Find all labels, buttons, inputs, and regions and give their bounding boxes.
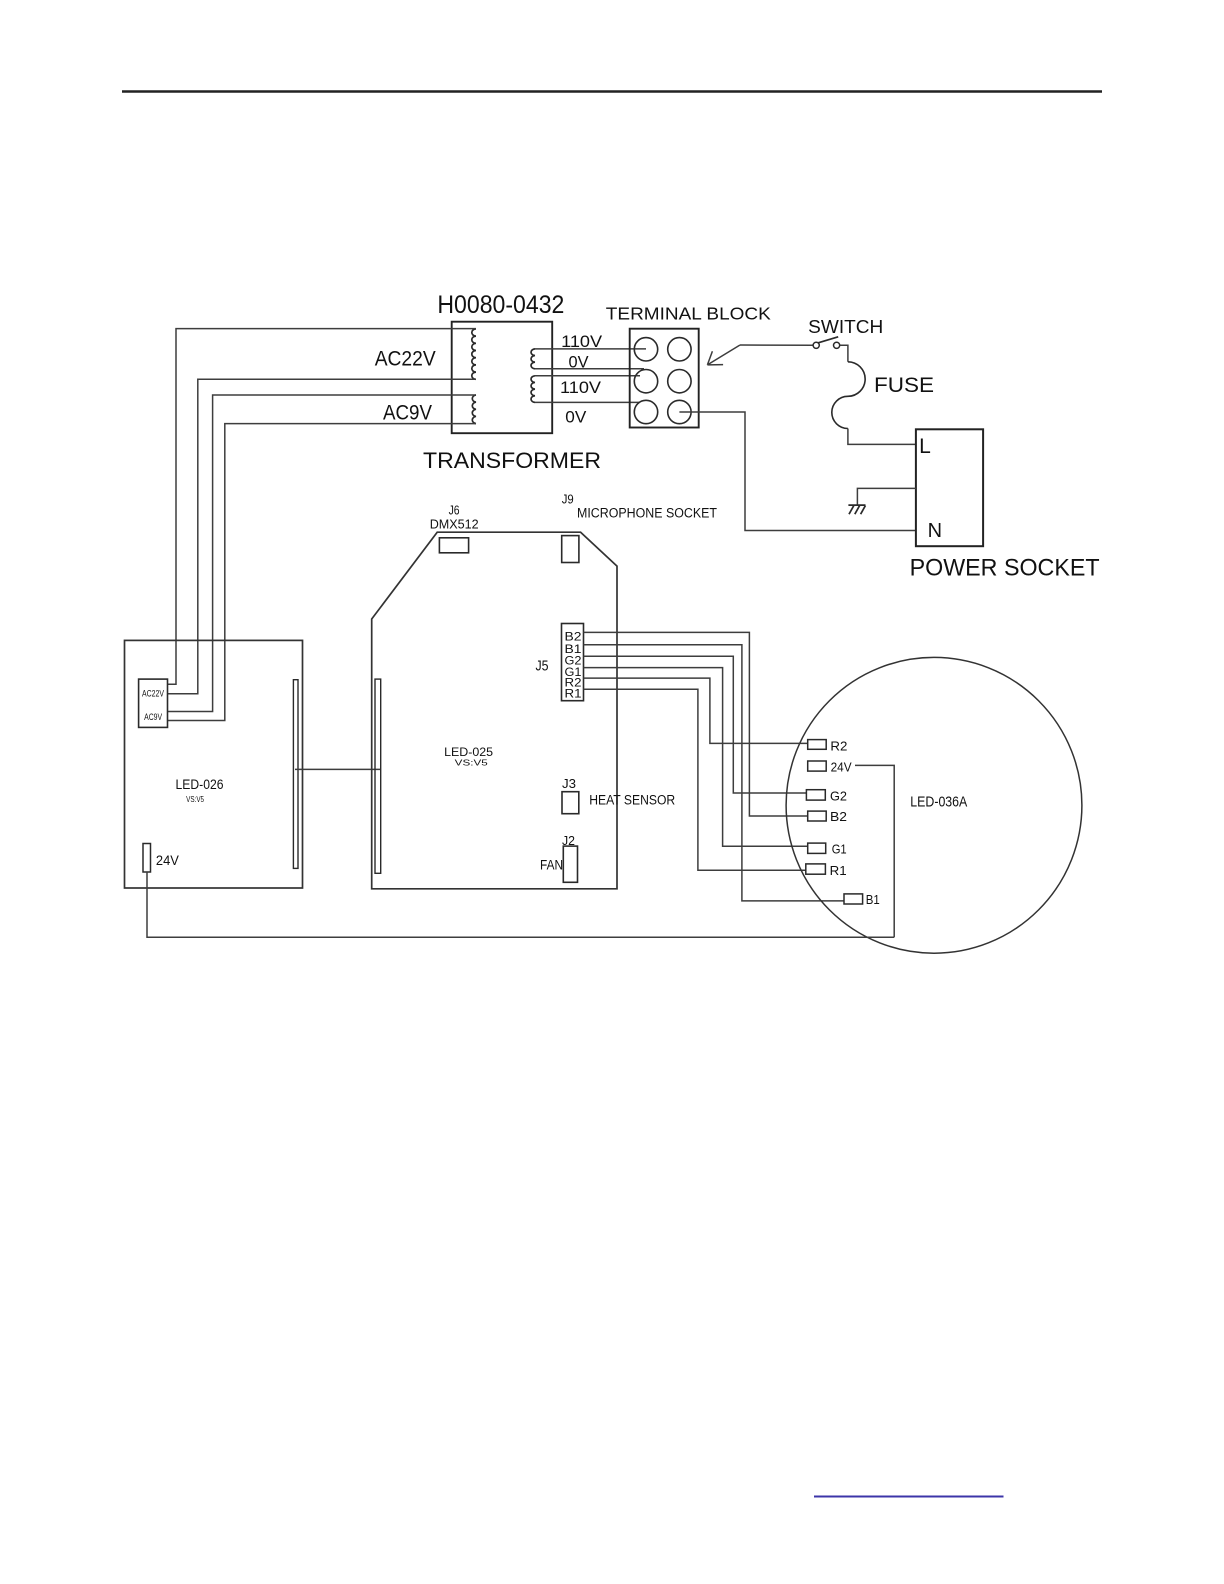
svg-text:LED-036A: LED-036A [910,794,967,811]
svg-text:R1: R1 [565,689,582,701]
svg-text:VS:V5: VS:V5 [455,759,489,768]
LED-025 board body [372,532,617,889]
switch S1 left contact [813,342,819,348]
connector J2 [563,846,577,882]
terminal TB1 pin 1 [634,338,657,361]
LED-026 board body [125,640,303,888]
transformer primary winding AC9V [472,395,476,424]
wire fuse to power socket L [848,429,916,445]
wire J5 R1 to LED-036A R1 [584,689,806,870]
connector J6 [439,538,468,553]
svg-text:0V: 0V [565,409,586,427]
ground [848,505,865,514]
svg-text:R1: R1 [830,863,847,878]
wire J5 R2 to LED-036A R2 [584,678,808,743]
LED-026 24V output connector [143,844,151,873]
transformer secondary winding 110V/0V upper [531,349,535,369]
svg-text:G2: G2 [565,655,582,667]
svg-text:J2: J2 [562,833,575,848]
svg-text:B1: B1 [866,892,880,907]
LED-036A terminal 24V [808,761,827,771]
svg-text:TERMINAL BLOCK: TERMINAL BLOCK [606,303,771,323]
connector J5 [562,624,584,701]
LED-036A terminal R2 [808,740,827,750]
svg-text:FAN: FAN [540,857,563,872]
svg-text:TRANSFORMER: TRANSFORMER [423,448,601,473]
power socket body [916,429,983,546]
svg-text:24V: 24V [156,852,180,868]
svg-text:N: N [928,520,942,542]
terminal block TB1 body [630,329,699,428]
LED-036A lamp head outline [786,657,1082,953]
svg-text:110V: 110V [560,379,601,397]
connector J9 [562,536,579,563]
wire 110V lower to terminal block [535,375,640,377]
LED-036A terminal G2 [806,790,825,800]
wire 0V lower to terminal block [535,401,639,403]
terminal TB1 pin 4 [668,370,691,393]
wire 0V upper to terminal block [535,368,644,370]
svg-text:B1: B1 [565,644,582,656]
svg-text:AC9V: AC9V [144,712,162,722]
wire power socket to ground [857,488,916,504]
svg-text:H0080-0432: H0080-0432 [437,291,564,319]
wire 110V upper to terminal block [535,348,646,350]
svg-text:B2: B2 [830,809,847,824]
svg-text:POWER SOCKET: POWER SOCKET [910,554,1100,581]
svg-text:LED-026: LED-026 [176,777,224,792]
svg-text:J9: J9 [562,492,574,507]
switch S1 right contact [834,342,840,348]
svg-text:HEAT SENSOR: HEAT SENSOR [589,793,675,808]
fuse F1 [832,362,865,429]
terminal TB1 pin 6 [668,400,691,423]
LED-025 left edge connector [375,679,381,873]
svg-text:R2: R2 [565,677,582,689]
LED-036A terminal B2 [808,811,827,821]
wire 24V bus from LED-026 to LED-036A [147,872,894,937]
connector J3 [562,792,579,814]
LED-026 AC input connector [139,679,168,727]
svg-text:AC22V: AC22V [375,347,436,370]
wire J5 G1 to LED-036A G1 [584,668,809,847]
svg-text:FUSE: FUSE [874,374,934,397]
svg-text:J6: J6 [449,503,460,518]
svg-text:J5: J5 [536,658,549,675]
wire AC9V b from LED-026 connector to primary [168,424,477,721]
transformer secondary winding 110V/0V lower [531,376,535,403]
footer link underline [814,1496,1004,1498]
svg-text:SWITCH: SWITCH [808,316,883,337]
wire LED-036A 24V feed [855,765,894,937]
terminal TB1 pin 5 [634,400,657,423]
svg-text:AC9V: AC9V [383,401,432,424]
wire AC9V a from LED-026 connector to primary [168,395,477,712]
wire board link LED-026 to LED-025 [295,768,380,770]
svg-text:L: L [919,435,931,458]
svg-text:MICROPHONE SOCKET: MICROPHONE SOCKET [577,506,717,521]
wire J5 B1 to LED-036A B1 [584,645,845,901]
wire terminal block to power socket N [679,412,916,531]
wire switch to arrow line [740,344,813,346]
terminal TB1 pin 3 [634,370,657,393]
LED-036A terminal G1 [808,843,826,853]
svg-text:G2: G2 [830,788,847,803]
svg-text:AC22V: AC22V [142,689,164,699]
transformer T1 body [452,322,553,434]
wire AC22V b from LED-026 connector to primary [168,379,477,694]
svg-text:G1: G1 [832,842,847,857]
wire J5 G2 to LED-036A G2 [584,656,807,793]
wire AC22V a from LED-026 connector to primary [168,329,477,685]
wire switch to fuse [840,345,848,362]
header rule [122,90,1102,93]
svg-text:24V: 24V [831,759,852,774]
LED-036A terminal R1 [806,864,826,874]
svg-text:R2: R2 [830,738,847,753]
svg-text:B2: B2 [565,632,582,644]
svg-text:VS:V5: VS:V5 [186,795,204,804]
svg-text:LED-025: LED-025 [444,745,493,759]
wire J5 B2 to LED-036A B2 [584,632,809,816]
LED-036A terminal B1 [844,894,863,904]
LED-026 right edge connector [293,680,298,869]
svg-text:DMX512: DMX512 [430,517,479,532]
transformer primary winding AC22V [472,329,476,379]
arrow pointing at terminal block [707,345,740,365]
svg-text:J3: J3 [562,776,576,791]
terminal TB1 pin 2 [668,338,691,361]
switch S1 lever [818,337,838,343]
